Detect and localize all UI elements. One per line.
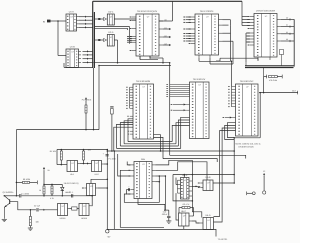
transistor Q1 <box>3 191 15 219</box>
svg-text:NE555: NE555 <box>81 217 87 220</box>
wire gate U2-D output <box>114 40 118 63</box>
svg-text:A3: A3 <box>164 42 166 45</box>
wire U9 left loop inner <box>124 182 159 203</box>
resistor R9 470 <box>264 68 283 82</box>
resistor R5 force <box>82 98 92 130</box>
wire U9 left loop outer <box>120 170 164 227</box>
wire bus horizontals <box>95 27 130 44</box>
oneshot U15-2 <box>92 161 104 172</box>
wire H5 under U5 <box>216 58 258 61</box>
wire into U16 <box>91 195 93 197</box>
svg-text:.022uF: .022uF <box>162 213 169 216</box>
terminal +5V <box>106 230 111 239</box>
wire U5 output bus right <box>293 19 295 66</box>
wire U3 input cluster <box>127 36 132 43</box>
buffer U1-A <box>66 10 79 31</box>
svg-text:U6-C: U6-C <box>181 210 187 213</box>
wire U9 left mid <box>118 154 131 176</box>
svg-text:R1 10K: R1 10K <box>50 150 57 153</box>
svg-text:U1-B: U1-B <box>70 45 76 48</box>
wire U5 outputs <box>281 16 294 42</box>
svg-text:U2-C: U2-C <box>108 10 114 13</box>
gate U12 <box>197 214 213 229</box>
wire U16 top <box>91 179 108 184</box>
resistor R1 10K <box>50 150 63 161</box>
coupling R8 <box>70 207 80 210</box>
wire bus to gates <box>94 18 103 41</box>
wire long vertical x234 <box>233 137 235 183</box>
gate U2-C <box>104 10 115 25</box>
oneshot U13 <box>58 204 70 216</box>
wire under U10 <box>173 175 202 218</box>
svg-text:74LS123 OR EQ: 74LS123 OR EQ <box>63 182 78 185</box>
capacitor C5 10uF <box>103 153 109 156</box>
wire U16 out <box>98 187 108 189</box>
capacitor C8 at U9 pin 5 <box>126 185 130 194</box>
timer U9 555 <box>128 158 155 198</box>
ground at Q1 <box>2 219 7 221</box>
svg-text:U5-2: U5-2 <box>94 173 98 176</box>
wire U9 bottom loop <box>138 199 165 211</box>
wire U4 outputs <box>223 20 234 64</box>
wire U9 pin3 fanout <box>155 175 166 210</box>
label 74LS123 <box>63 182 78 185</box>
wire U1-A outputs to bus <box>79 16 93 29</box>
capacitor C3 series <box>69 191 74 197</box>
bundle wire 1 <box>128 141 172 143</box>
thick rail under U5 <box>245 62 294 67</box>
capacitor C4 at U5 pin 9 <box>280 50 284 66</box>
wire U5 left clusters <box>242 17 250 63</box>
svg-text:74LS 90 DIV: 74LS 90 DIV <box>193 78 206 81</box>
wire H4 under U4 <box>199 58 233 86</box>
svg-text:74LS 90 MAIN: 74LS 90 MAIN <box>136 80 151 83</box>
wire U8 right drop <box>234 92 261 138</box>
svg-text:A1: A1 <box>164 26 166 29</box>
capacitor C2 series <box>30 204 57 211</box>
top bridge wire <box>93 1 248 21</box>
wire U11b outputs <box>192 216 200 223</box>
wire U4 left stubs <box>183 17 191 42</box>
wire U6 lower bundle <box>114 119 133 151</box>
svg-text:U6-D: U6-D <box>205 214 211 217</box>
wire U10 to U11a <box>192 186 200 188</box>
svg-text:74LS 90 DIV2: 74LS 90 DIV2 <box>240 80 254 83</box>
svg-text:P 1.5MS: P 1.5MS <box>108 158 116 161</box>
wire U7 clock pins <box>171 103 190 111</box>
resistor R7 10K <box>29 209 39 228</box>
svg-text:C2 1uF: C2 1uF <box>34 204 41 207</box>
resistor R10 47K <box>179 203 194 216</box>
divider U10 <box>178 174 193 199</box>
wire U11a output <box>213 182 235 184</box>
svg-text:S1: S1 <box>286 24 288 27</box>
rail to transistor <box>16 129 99 196</box>
svg-text:A0: A0 <box>164 18 166 21</box>
wire oscillator out <box>259 77 298 95</box>
svg-text:U6-B: U6-B <box>206 176 212 179</box>
wire U9 left pin1 <box>127 162 131 165</box>
svg-text:470 OHM: 470 OHM <box>269 79 278 82</box>
wire U8 clock pin <box>223 116 236 118</box>
wire vertical x99 <box>98 66 100 130</box>
bundle wire A <box>170 155 246 158</box>
input connector J1 <box>43 20 58 24</box>
wire left drop x114 <box>114 150 116 229</box>
bundle wire B <box>163 159 217 162</box>
wire U7 lower bundle <box>172 117 189 148</box>
svg-text:74LS244 OR EQUIV: 74LS244 OR EQUIV <box>137 10 158 13</box>
ground at R7 <box>28 228 33 230</box>
gate U11a <box>198 176 213 190</box>
wire between oneshots <box>80 162 92 164</box>
svg-text:DIVIDER CHAIN: DIVIDER CHAIN <box>239 146 254 149</box>
resistor R4 4.7K <box>43 184 62 200</box>
label P 1.5ms <box>108 158 116 161</box>
wire U11b bottom <box>183 226 185 229</box>
wire U15-2 output <box>104 163 108 165</box>
wire U8 lower bundle <box>214 123 236 222</box>
wire Q1 base <box>10 202 30 210</box>
svg-text:U2-D: U2-D <box>108 31 114 34</box>
svg-text:C10: C10 <box>163 210 166 213</box>
main counter U6 <box>133 80 154 139</box>
wire U14 out <box>91 195 93 206</box>
bundle wire 4 <box>117 147 181 149</box>
bottom rail <box>107 229 228 241</box>
rail analog top <box>57 149 107 165</box>
wire bundle top right <box>173 160 235 177</box>
bus B1 <box>93 1 95 68</box>
resistor R11 tap <box>110 106 113 151</box>
wire bus drop to rail <box>93 68 95 130</box>
svg-text:NOTE: 100KHz CAL OSC &: NOTE: 100KHz CAL OSC & <box>236 142 262 145</box>
oneshot U15-1 <box>67 161 80 172</box>
supply arrow +5V <box>43 167 51 186</box>
wire x192 drop <box>192 175 194 202</box>
wire under U1-B <box>64 63 93 67</box>
wire U7 pin strap <box>166 62 189 155</box>
svg-text:R2 4.7K: R2 4.7K <box>183 203 191 206</box>
svg-text:S2: S2 <box>286 31 288 34</box>
svg-text:TO J3/TP1: TO J3/TP1 <box>218 238 229 241</box>
wire U9 out2 return <box>155 162 207 180</box>
wire U6 lower pins <box>127 115 133 118</box>
svg-text:C1 .0056: C1 .0056 <box>21 193 29 196</box>
buffer U1-B <box>66 45 81 67</box>
wire U6 bottom right pins <box>154 135 164 159</box>
resistor R6 100K <box>16 178 38 184</box>
wire input split <box>57 20 66 55</box>
bundle wire 5 long <box>107 150 235 152</box>
svg-text:R6 100K: R6 100K <box>23 178 31 181</box>
wire R1 to U15-1 <box>61 160 63 165</box>
svg-text:A2: A2 <box>164 34 166 37</box>
wire top horizontal H3 <box>98 29 171 66</box>
svg-text:P1 FORCE: P1 FORCE <box>82 99 92 102</box>
svg-text:C3 .1: C3 .1 <box>69 191 74 194</box>
svg-text:Q1 2N2222A: Q1 2N2222A <box>3 191 15 194</box>
svg-text:74LS 373/374: 74LS 373/374 <box>200 10 214 13</box>
svg-text:U5-1: U5-1 <box>70 173 74 176</box>
svg-text:NE555: NE555 <box>60 217 66 220</box>
bundle wire 2 <box>124 143 176 145</box>
wire gate U2-C output <box>114 18 136 20</box>
capacitor C10 0.022 <box>162 209 172 223</box>
wire U6 pin stubs lower <box>128 131 133 135</box>
wire U3 bottom stubs <box>140 56 164 63</box>
wire U1-B outputs to bus <box>83 50 93 63</box>
oneshot U16 <box>82 184 98 196</box>
wire +5V vertical rail <box>107 149 109 230</box>
wire top horizontal H1 <box>94 62 170 64</box>
svg-text:S3: S3 <box>286 38 288 41</box>
wire U10 left strap <box>177 180 179 193</box>
capacitor C1 0.0056 <box>4 193 93 198</box>
gate U2-D <box>104 31 115 46</box>
wire U6 pin strap <box>126 87 133 109</box>
wire U3 outputs <box>159 18 173 46</box>
octal latch U4 <box>189 10 223 58</box>
gate U11b <box>179 210 192 226</box>
diode D1 1N914 <box>61 184 71 196</box>
wire U9 pin4 <box>155 181 160 183</box>
octal buffer U3 <box>130 10 163 59</box>
wire U8 pin strap <box>228 86 235 107</box>
oneshot U14 <box>79 204 91 216</box>
wire U11b left <box>176 178 179 221</box>
counter U8 <box>236 80 259 136</box>
resistor R2 10K <box>83 148 92 163</box>
note text <box>236 142 262 148</box>
counter U7 <box>190 78 210 139</box>
svg-text:U1-A: U1-A <box>69 10 75 13</box>
svg-text:S0: S0 <box>286 16 288 19</box>
resistor R3 1K <box>39 186 45 197</box>
decoder U5 <box>248 9 281 60</box>
svg-text:LATCH/ DECODER: LATCH/ DECODER <box>256 9 276 12</box>
wire U9 out1 return <box>155 160 192 165</box>
bundle wire 3 <box>120 145 178 147</box>
switch J2 <box>247 170 266 195</box>
